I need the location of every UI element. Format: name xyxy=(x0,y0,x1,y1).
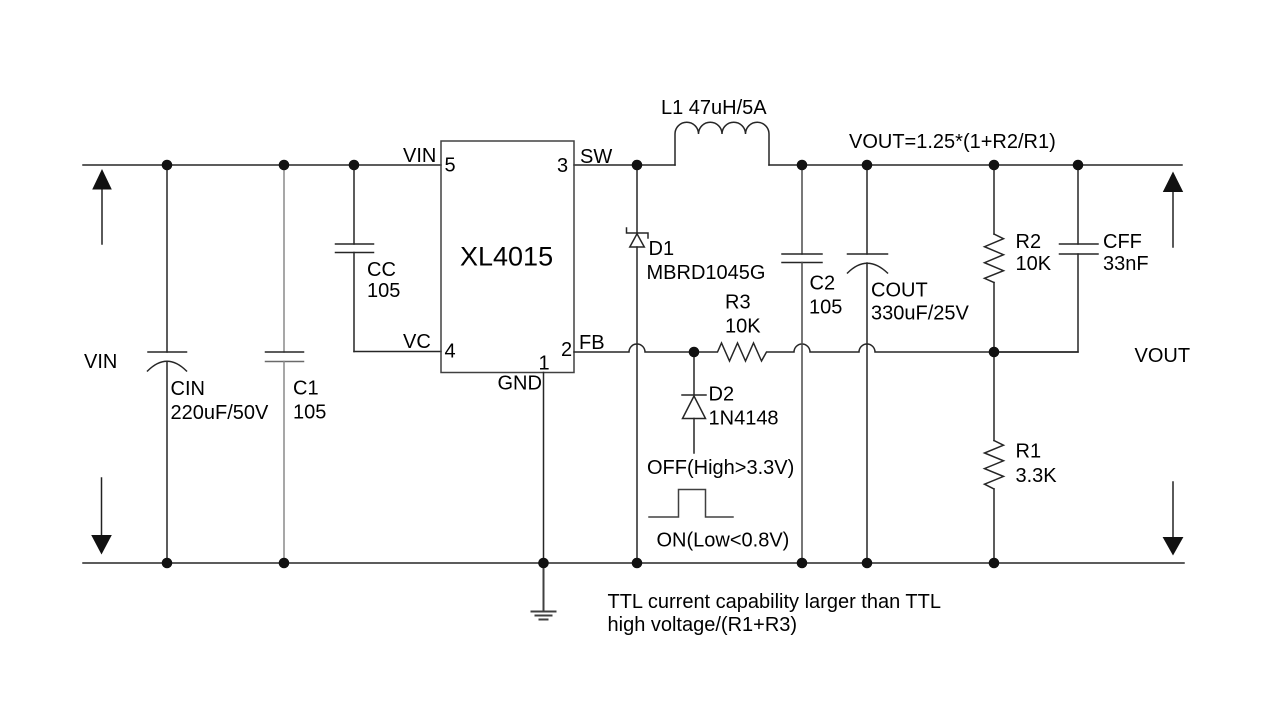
svg-text:3: 3 xyxy=(557,155,568,177)
op-amp U1 XL4015 body xyxy=(441,141,574,373)
node C1 bottom xyxy=(279,558,290,569)
capacitor CIN xyxy=(148,165,187,563)
ground symbol xyxy=(532,563,556,620)
node CC top xyxy=(349,160,360,171)
node FB R1 R2 xyxy=(989,347,1000,358)
svg-text:10K: 10K xyxy=(725,316,761,338)
svg-text:L1 47uH/5A: L1 47uH/5A xyxy=(661,97,767,119)
node VIN return arrow down xyxy=(91,478,112,555)
svg-text:FB: FB xyxy=(579,332,605,354)
node GND rail xyxy=(538,558,549,569)
node CIN bottom xyxy=(162,558,173,569)
svg-text:COUT: COUT xyxy=(871,280,928,302)
node VIN input arrow up xyxy=(92,169,112,244)
resistor R1 xyxy=(985,352,1004,563)
svg-text:105: 105 xyxy=(367,280,400,302)
node FB D2 xyxy=(689,347,700,358)
svg-text:ON(Low<0.8V): ON(Low<0.8V) xyxy=(657,530,790,552)
svg-text:R1: R1 xyxy=(1016,441,1042,463)
svg-text:TTL current capability larger: TTL current capability larger than TTL xyxy=(608,591,941,613)
wire FB net with hops over D1 C2 COUT and resistor R3 zigzag xyxy=(574,343,1078,361)
svg-text:C2: C2 xyxy=(810,273,836,295)
svg-text:D2: D2 xyxy=(709,384,735,406)
node C1 top xyxy=(279,160,290,171)
pulse waveform symbol xyxy=(649,490,733,518)
node C2 bottom xyxy=(797,558,808,569)
svg-text:VC: VC xyxy=(403,331,431,353)
diode D1 MBRD1045G schottky xyxy=(627,165,649,563)
wire top rail VIN net xyxy=(83,164,441,166)
capacitor CC xyxy=(336,165,374,352)
node R1 bottom xyxy=(989,558,1000,569)
node COUT top xyxy=(862,160,873,171)
node CFF top xyxy=(1073,160,1084,171)
svg-text:R3: R3 xyxy=(725,292,751,314)
wire top rail SW to L1 xyxy=(574,164,675,166)
svg-text:OFF(High>3.3V): OFF(High>3.3V) xyxy=(647,457,794,479)
capacitor CFF xyxy=(994,165,1098,352)
svg-text:VOUT=1.25*(1+R2/R1): VOUT=1.25*(1+R2/R1) xyxy=(849,131,1056,153)
svg-text:MBRD1045G: MBRD1045G xyxy=(647,262,766,284)
inductor L1 xyxy=(675,122,769,165)
svg-text:4: 4 xyxy=(445,341,456,363)
svg-text:2: 2 xyxy=(561,339,572,361)
diode D2 1N4148 xyxy=(682,352,706,453)
svg-text:1N4148: 1N4148 xyxy=(709,408,779,430)
node COUT bottom xyxy=(862,558,873,569)
svg-text:1: 1 xyxy=(539,353,550,375)
node VOUT output arrow up xyxy=(1163,172,1183,248)
svg-text:high voltage/(R1+R3): high voltage/(R1+R3) xyxy=(608,614,798,636)
svg-text:XL4015: XL4015 xyxy=(460,242,553,272)
svg-text:SW: SW xyxy=(580,146,612,168)
svg-text:10K: 10K xyxy=(1016,253,1052,275)
svg-text:C1: C1 xyxy=(293,378,319,400)
svg-text:CFF: CFF xyxy=(1103,231,1142,253)
svg-text:D1: D1 xyxy=(649,238,675,260)
svg-text:R2: R2 xyxy=(1016,231,1042,253)
wire CC to VC pin xyxy=(354,351,441,353)
capacitor COUT xyxy=(848,165,888,563)
svg-text:330uF/25V: 330uF/25V xyxy=(871,303,970,325)
wire bottom ground rail xyxy=(83,562,1184,564)
capacitor C1 xyxy=(266,165,304,563)
node VOUT return arrow down xyxy=(1163,482,1184,556)
svg-text:5: 5 xyxy=(445,155,456,177)
wire IC pin1 to ground rail xyxy=(543,373,545,564)
svg-text:CIN: CIN xyxy=(171,378,205,400)
svg-text:VIN: VIN xyxy=(403,145,436,167)
svg-text:VOUT: VOUT xyxy=(1135,345,1191,367)
node D1 bottom xyxy=(632,558,643,569)
svg-text:105: 105 xyxy=(809,297,842,319)
node C2 top xyxy=(797,160,808,171)
svg-text:GND: GND xyxy=(498,373,542,395)
svg-text:CC: CC xyxy=(367,259,396,281)
svg-text:220uF/50V: 220uF/50V xyxy=(171,402,270,424)
node R2 top xyxy=(989,160,1000,171)
svg-text:VIN: VIN xyxy=(84,351,117,373)
capacitor C2 xyxy=(782,165,822,563)
node CIN top xyxy=(162,160,173,171)
node SW D1 xyxy=(632,160,643,171)
svg-text:3.3K: 3.3K xyxy=(1016,465,1058,487)
resistor R2 xyxy=(985,165,1004,352)
svg-text:33nF: 33nF xyxy=(1103,253,1149,275)
svg-text:105: 105 xyxy=(293,402,326,424)
wire top rail VOUT net xyxy=(769,164,1182,166)
